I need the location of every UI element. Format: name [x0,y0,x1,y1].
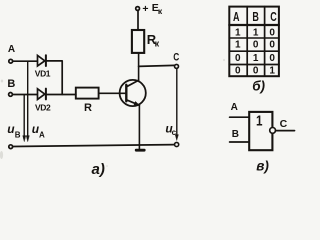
resistor R [76,88,99,99]
svg-text:VD1: VD1 [35,69,51,79]
svg-text:c: c [172,128,177,137]
truth table row rule 2 [229,37,279,39]
truth table header rule [229,24,279,26]
truth table column line A|B [246,7,248,77]
svg-text:0: 0 [269,28,275,39]
svg-text:B: B [7,78,15,90]
truth table frame [229,7,279,77]
svg-text:1: 1 [235,28,241,39]
wire: gate input B [230,141,250,143]
truth table header A B C [233,10,277,24]
power supply terminal +Ek [136,7,140,11]
ground rail [13,145,175,147]
truth table column line B|C [264,7,266,77]
svg-text:а): а) [92,161,105,178]
wire: emitter down to ground rail [138,105,140,148]
svg-text:б): б) [252,79,265,94]
svg-text:A: A [8,44,15,55]
svg-text:0: 0 [253,40,259,51]
svg-text:B: B [252,10,259,24]
svg-text:A: A [39,130,45,139]
voltage arrow uB [23,95,26,142]
wire: +Ek terminal to RK [137,10,139,30]
svg-text:C: C [173,51,179,63]
svg-text:0: 0 [235,53,241,64]
ground symbol [135,149,146,152]
svg-text:0: 0 [269,40,275,51]
logic gate U1 (NOR, IEC box) [249,112,272,150]
svg-text:B: B [15,131,21,140]
svg-text:1: 1 [256,112,263,129]
label uB [7,122,20,140]
svg-text:B: B [232,129,239,140]
wire: junction branch down to common diode node [61,61,63,94]
label uA [32,122,45,140]
ground rail left terminal [9,145,13,149]
voltage arrow uA [26,62,29,142]
wire: gate output C [276,130,295,132]
diode VD1 [38,55,46,66]
truth table row 2: 1 0 0 [235,40,275,51]
wire: collector up to RK [138,53,140,81]
ground rail right terminal [175,142,179,146]
paper background [0,0,300,179]
wire: collector node to output C [139,65,175,66]
truth table row 4: 0 0 1 [235,65,275,76]
svg-text:C: C [270,10,277,24]
svg-text:C: C [280,118,288,130]
output terminal C [175,64,179,68]
svg-text:+: + [142,3,148,15]
input terminal B [9,93,13,97]
label uc [165,122,176,137]
svg-text:1: 1 [269,65,275,76]
truth table row rule 4 [229,64,279,66]
wire: VD2 cathode to resistor R [47,94,76,96]
svg-text:1: 1 [253,28,259,39]
wire: input A to VD1 anode [13,60,37,62]
wire: gate input A [230,116,250,118]
diode VD2 [38,89,46,100]
scan speckle [0,59,225,167]
transistor VT1 (NPN) [120,80,146,106]
label RK [147,32,160,49]
svg-text:VD2: VD2 [35,103,51,113]
svg-text:к: к [158,6,163,16]
truth table row 3: 0 1 0 [235,53,275,64]
resistor RK [132,30,144,53]
wire: VD1 cathode to junction node [47,60,62,62]
svg-text:0: 0 [269,53,275,64]
wire: input B to VD2 anode [13,94,38,96]
wire: resistor R to transistor base [99,92,126,94]
voltage arrow uc [175,69,178,141]
svg-text:1: 1 [235,40,241,51]
label +Ek [142,2,162,16]
svg-text:A: A [231,102,238,113]
svg-text:в): в) [256,158,269,173]
truth table row rule 3 [229,50,279,52]
svg-text:R: R [84,102,92,114]
truth table row 1: 1 1 0 [235,28,275,39]
input terminal A [9,59,13,63]
svg-text:к: к [155,39,160,49]
svg-text:1: 1 [253,53,259,64]
svg-text:0: 0 [235,65,241,76]
inversion bubble [270,127,276,133]
svg-text:A: A [233,10,240,24]
svg-text:0: 0 [253,65,259,76]
